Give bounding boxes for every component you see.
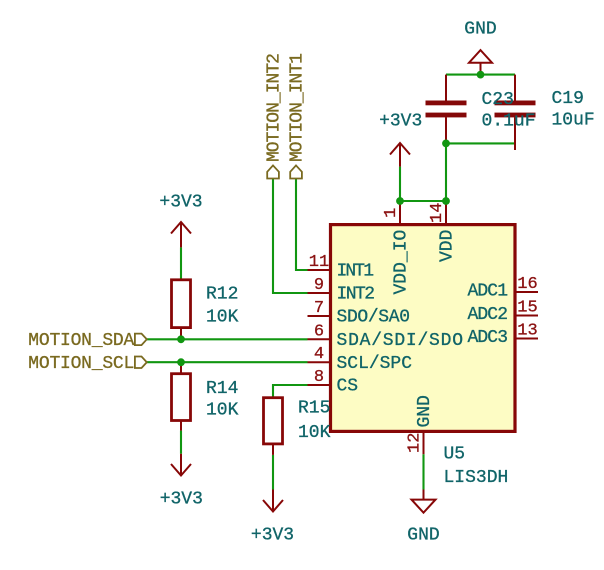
svg-text:ADC2: ADC2 bbox=[468, 305, 509, 325]
svg-text:LIS3DH: LIS3DH bbox=[444, 468, 509, 488]
junction node SCL bbox=[177, 358, 185, 366]
power GND bottom bbox=[412, 490, 436, 513]
wire R15 to +3V3 bbox=[272, 455, 274, 490]
svg-text:U5: U5 bbox=[444, 445, 466, 465]
svg-text:16: 16 bbox=[517, 275, 537, 294]
svg-text:10K: 10K bbox=[206, 401, 239, 421]
resistor R12 bbox=[172, 280, 191, 340]
svg-text:ADC3: ADC3 bbox=[468, 328, 509, 348]
capacitor C23 bbox=[426, 75, 467, 144]
svg-text:8: 8 bbox=[314, 368, 324, 387]
pin 1 bbox=[399, 201, 401, 225]
svg-text:MOTION_INT1: MOTION_INT1 bbox=[288, 53, 308, 162]
power +3V3 up at R12 bbox=[171, 222, 191, 247]
svg-text:6: 6 bbox=[314, 322, 324, 341]
wire +3V3 to pin1 node bbox=[399, 167, 401, 201]
IC U5 body bbox=[331, 225, 516, 432]
svg-text:12: 12 bbox=[406, 433, 425, 453]
svg-text:MOTION_SDA: MOTION_SDA bbox=[28, 331, 134, 351]
svg-text:GND: GND bbox=[464, 19, 496, 39]
svg-text:15: 15 bbox=[517, 299, 537, 318]
wire R14 to +3V3 bbox=[180, 431, 182, 454]
pin 7 bbox=[308, 315, 331, 317]
wire pin8 to R15 bbox=[273, 385, 308, 398]
pin 6 bbox=[308, 338, 331, 340]
junction node pin1 bbox=[396, 197, 404, 205]
power +3V3 down at R14 bbox=[171, 454, 191, 476]
pin 9 bbox=[308, 292, 331, 294]
pin 15 bbox=[515, 315, 538, 317]
wire MOTION_SCL bbox=[147, 361, 308, 363]
svg-text:11: 11 bbox=[309, 253, 329, 272]
svg-text:4: 4 bbox=[314, 345, 324, 364]
svg-text:10uF: 10uF bbox=[552, 111, 595, 131]
power +3V3 down at R15 bbox=[263, 490, 283, 512]
svg-text:10K: 10K bbox=[206, 308, 239, 328]
svg-text:13: 13 bbox=[517, 322, 537, 341]
wire MOTION_SDA bbox=[147, 338, 308, 340]
wire +3V3 to R12 bbox=[180, 247, 182, 279]
svg-text:10K: 10K bbox=[298, 423, 331, 443]
wire pin12 to GND bbox=[422, 454, 424, 489]
resistor R14 bbox=[172, 362, 191, 430]
svg-text:MOTION_INT2: MOTION_INT2 bbox=[265, 53, 285, 162]
wire MOTION_INT1 to pin11 bbox=[296, 179, 308, 271]
junction node SDA bbox=[177, 335, 185, 343]
svg-text:+3V3: +3V3 bbox=[159, 193, 202, 213]
wire top cap bus bbox=[446, 74, 515, 76]
svg-text:CS: CS bbox=[337, 377, 359, 397]
svg-text:+3V3: +3V3 bbox=[379, 112, 422, 132]
svg-text:ADC1: ADC1 bbox=[468, 282, 509, 302]
svg-text:R15: R15 bbox=[298, 399, 330, 419]
svg-text:+3V3: +3V3 bbox=[251, 526, 294, 546]
wire MOTION_INT2 to pin9 bbox=[273, 179, 308, 294]
svg-text:SCL/SPC: SCL/SPC bbox=[337, 354, 413, 374]
svg-text:C23: C23 bbox=[482, 90, 514, 110]
pin 14 bbox=[445, 201, 447, 225]
svg-text:VDD: VDD bbox=[438, 230, 458, 262]
resistor R15 bbox=[264, 398, 283, 455]
svg-text:SDO/SA0: SDO/SA0 bbox=[337, 308, 411, 328]
junction node pin14 bbox=[442, 197, 450, 205]
wire bottom cap bus bbox=[446, 142, 515, 144]
pin 13 bbox=[515, 338, 538, 340]
pin 8 bbox=[308, 384, 331, 386]
junction node C23 bottom bbox=[442, 140, 450, 148]
svg-text:GND: GND bbox=[415, 395, 435, 427]
svg-text:SDA/SDI/SDO: SDA/SDI/SDO bbox=[337, 331, 464, 351]
hier label glyph MOTION_SCL bbox=[135, 357, 147, 369]
svg-text:+3V3: +3V3 bbox=[160, 490, 203, 510]
pin 12 bbox=[423, 431, 425, 454]
wire C23 node down to VDD bbox=[445, 143, 447, 201]
svg-text:0.1uF: 0.1uF bbox=[482, 112, 536, 132]
wire pin1 to pin14 bus bbox=[400, 200, 446, 202]
svg-text:R12: R12 bbox=[206, 285, 238, 305]
capacitor C19 bbox=[495, 75, 536, 150]
svg-text:1: 1 bbox=[382, 208, 401, 218]
pin 4 bbox=[308, 361, 331, 363]
hier label glyph MOTION_INT1 bbox=[290, 165, 302, 178]
svg-text:14: 14 bbox=[428, 203, 447, 223]
svg-text:C19: C19 bbox=[552, 89, 584, 109]
junction node top GND bbox=[477, 71, 485, 79]
hier label glyph MOTION_SDA bbox=[135, 334, 147, 346]
power +3V3 up at caps bbox=[390, 143, 410, 167]
svg-text:7: 7 bbox=[314, 299, 324, 318]
power GND top bbox=[469, 50, 492, 74]
svg-text:GND: GND bbox=[407, 526, 439, 546]
svg-text:9: 9 bbox=[314, 276, 324, 295]
svg-text:R14: R14 bbox=[206, 379, 238, 399]
svg-text:VDD_IO: VDD_IO bbox=[392, 230, 412, 295]
hier label glyph MOTION_INT2 bbox=[267, 165, 279, 178]
svg-text:MOTION_SCL: MOTION_SCL bbox=[28, 354, 134, 374]
svg-text:INT2: INT2 bbox=[337, 285, 376, 305]
svg-text:INT1: INT1 bbox=[337, 262, 375, 282]
pin 11 bbox=[308, 269, 331, 271]
pin 16 bbox=[515, 291, 538, 293]
